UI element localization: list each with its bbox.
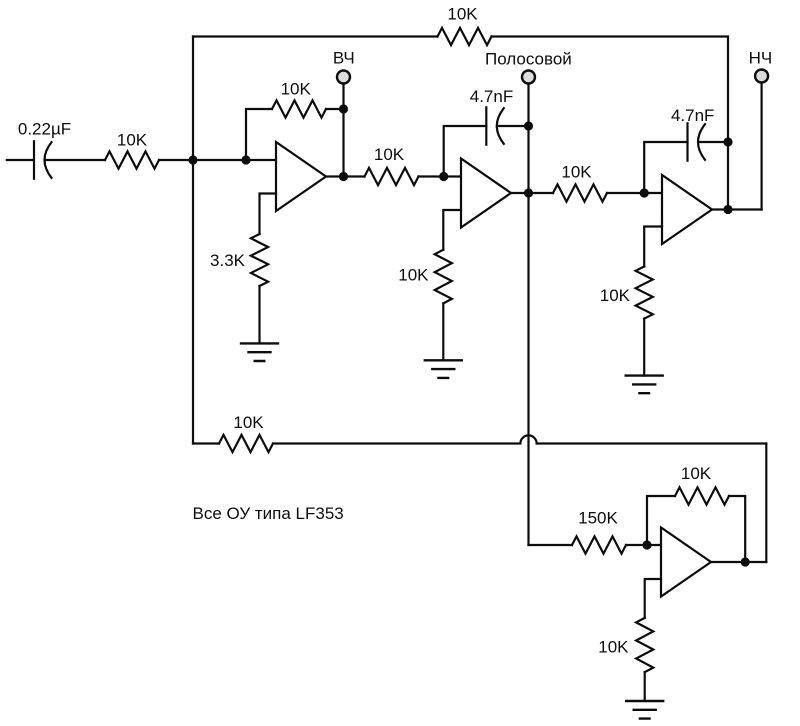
label R2 value (447, 5, 478, 24)
wire U2 noninverting input stub (443, 210, 461, 250)
wire R7 to U3 (607, 192, 662, 194)
wire R5 to U2 (419, 175, 462, 177)
wire U4 input row (529, 544, 573, 546)
label НЧ (749, 49, 773, 68)
svg-text:Все ОУ типа LF353: Все ОУ типа LF353 (193, 504, 344, 523)
node U3 output (723, 205, 732, 214)
svg-text:4.7nF: 4.7nF (470, 87, 513, 106)
wire U4 output (711, 561, 766, 563)
node U1 feedback branch (241, 155, 250, 164)
wire top feedback left (193, 35, 438, 37)
note all op-amps LF353 (193, 504, 344, 523)
svg-text:НЧ: НЧ (749, 49, 773, 68)
svg-text:10K: 10K (233, 413, 264, 432)
wire U1 output (326, 175, 365, 177)
op-amp U4 (661, 528, 711, 597)
resistor R9 10K bottom feedback (219, 435, 273, 452)
svg-text:10K: 10K (398, 266, 429, 285)
label C3 value (671, 106, 714, 125)
capacitor C1 0.22µF (34, 141, 105, 178)
terminal НЧ output (755, 70, 768, 83)
svg-text:10K: 10K (447, 5, 478, 24)
svg-text:10K: 10K (281, 80, 312, 99)
op-amp U1 (276, 142, 326, 211)
label R9 value (233, 413, 264, 432)
label R4 value (210, 251, 246, 270)
ground G2 (425, 360, 462, 378)
svg-text:150K: 150K (578, 509, 618, 528)
resistor R12 10K U4 ground (636, 618, 653, 672)
svg-text:10K: 10K (681, 464, 712, 483)
label R7 value (561, 163, 592, 182)
svg-text:4.7nF: 4.7nF (671, 106, 714, 125)
node A input summing junction (188, 155, 197, 164)
wire U3 output (712, 208, 762, 210)
wire U3 noninverting input stub (644, 227, 662, 267)
wire U2 feedback up (444, 126, 487, 177)
capacitor C2 4.7nF (486, 107, 528, 144)
label R8 value (600, 286, 631, 305)
label R11 value (681, 464, 712, 483)
wire U4 feedback up (647, 496, 675, 545)
node U4 output (741, 557, 750, 566)
wire input to op-amp U1 (159, 159, 276, 161)
svg-text:ВЧ: ВЧ (333, 49, 355, 68)
svg-text:10K: 10K (374, 145, 405, 164)
node U4 inverting input (642, 540, 651, 549)
label ВЧ (333, 49, 355, 68)
wire U4 feedback down (729, 496, 745, 562)
label C2 value (470, 87, 513, 106)
node U1 output (339, 172, 348, 181)
wire U1 feedback up (246, 109, 272, 160)
label C1 value (18, 120, 71, 139)
capacitor C3 4.7nF (688, 123, 729, 160)
wire R4 to ground (258, 286, 260, 343)
wire bottom feedback with hop (273, 435, 766, 443)
wire U4 noninverting input stub (645, 579, 661, 618)
terminal ВЧ output (337, 71, 350, 84)
wire U1 feedback to output column (326, 108, 344, 110)
svg-text:3.3K: 3.3K (210, 251, 246, 270)
wire R6 to ground (442, 303, 444, 360)
resistor R6 10K U2 ground (435, 250, 452, 304)
terminal Полосовой output (522, 71, 535, 84)
label R6 value (398, 266, 429, 285)
op-amp U3 (662, 175, 712, 244)
label R5 value (374, 145, 405, 164)
ground G3 (626, 376, 663, 394)
label R10 value (578, 509, 618, 528)
svg-text:10K: 10K (600, 286, 631, 305)
wire input left (7, 159, 34, 161)
node C2 junction (524, 121, 533, 130)
wire U3 feedback up (644, 142, 687, 193)
svg-text:10K: 10K (598, 638, 629, 657)
ground G4 (626, 701, 663, 719)
node U2 inverting input branch (439, 172, 448, 181)
svg-text:Полосовой: Полосовой (485, 50, 572, 69)
wire bottom feedback left (193, 442, 219, 444)
resistor R8 10K U3 ground (636, 267, 653, 319)
wire R10 to U4 (626, 544, 661, 546)
wire U2 output (511, 192, 553, 194)
svg-text:0.22µF: 0.22µF (18, 120, 71, 139)
node C3 junction (723, 137, 732, 146)
resistor R3 10K U1 feedback (272, 100, 326, 117)
resistor R7 10K interstage (553, 184, 607, 201)
svg-text:10K: 10K (561, 163, 592, 182)
wire Полосовой stem (527, 84, 529, 545)
wire right vertical to U4 output (765, 444, 767, 563)
wire R8 to ground (643, 319, 645, 376)
resistor R11 10K U4 feedback (675, 487, 729, 504)
resistor R5 10K interstage (365, 168, 419, 185)
wire top feedback right (492, 37, 729, 210)
label R1 value (117, 131, 148, 150)
node U3 inverting input branch (640, 188, 649, 197)
label Полосовой (485, 50, 572, 69)
node U1 feedback junction (339, 104, 348, 113)
resistor R4 3.3K (251, 234, 268, 286)
resistor R2 10K top feedback (438, 28, 492, 45)
wire R12 to ground (644, 672, 646, 701)
op-amp U2 (461, 159, 511, 228)
resistor R10 150K (572, 536, 626, 553)
wire ВЧ stem (342, 84, 344, 177)
label R12 value (598, 638, 629, 657)
ground G1 (241, 343, 278, 361)
wire vertical node A column (192, 37, 194, 444)
node U2 output (524, 188, 533, 197)
wire НЧ stem (760, 83, 762, 210)
wire U1 noninverting input stub (260, 194, 277, 235)
label R3 value (281, 80, 312, 99)
resistor R1 10K input (105, 151, 159, 168)
svg-text:10K: 10K (117, 131, 148, 150)
